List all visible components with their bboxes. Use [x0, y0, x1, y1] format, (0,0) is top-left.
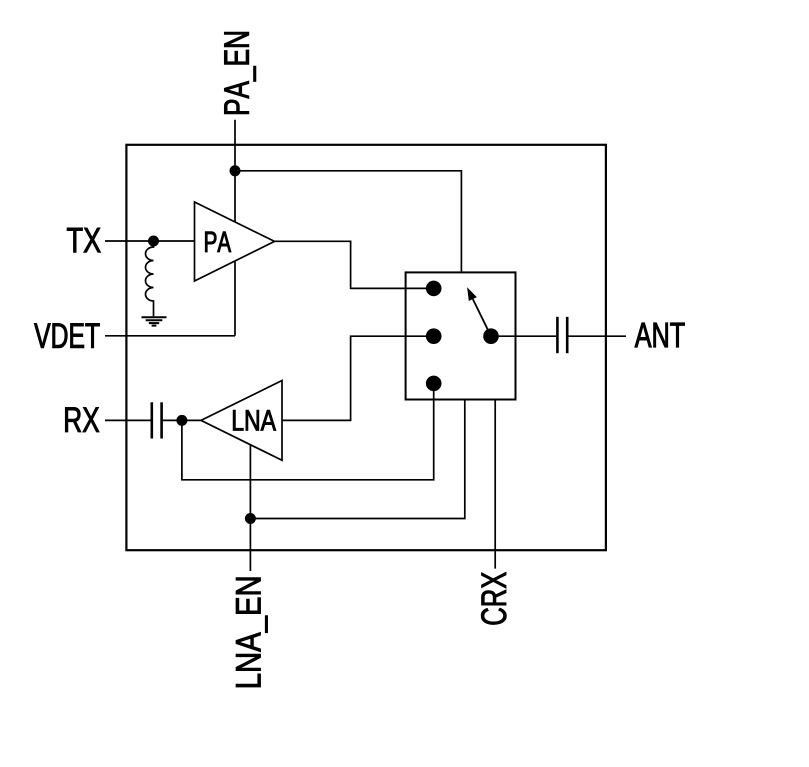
wire CRX [494, 400, 496, 569]
ground [142, 317, 167, 325]
label ANT [635, 323, 685, 347]
label PA [205, 232, 231, 252]
IC outer boundary box [126, 145, 606, 550]
switch arm with arrowhead [473, 299, 491, 336]
switch throw 2 dot [426, 328, 442, 344]
node LNA_EN junction dot [245, 513, 256, 524]
wire PA_EN junction to switch top [235, 171, 461, 272]
op-amp PA (power amplifier) [195, 202, 275, 281]
wire RX line [105, 419, 151, 421]
wire LNA_EN vertical [249, 430, 251, 571]
wire switch pole 3 down-left-up to RX node [182, 383, 434, 479]
op-amp LNA (low noise amplifier) [201, 381, 282, 461]
wire TX input [105, 240, 195, 242]
capacitor C2 (ANT) [557, 317, 567, 353]
label PA_EN [224, 32, 255, 114]
wire PA output to switch pole 1 [275, 241, 434, 288]
wire ANT cap to ANT label [568, 335, 626, 337]
switch common pole dot [483, 328, 499, 344]
label LNA [233, 410, 276, 430]
node PA_EN junction dot [230, 165, 241, 176]
wire VDET [105, 335, 235, 337]
node TX junction dot [148, 236, 159, 247]
label LNA_EN [236, 578, 267, 687]
wire switch common to ANT [491, 335, 556, 337]
switch throw 3 dot [426, 376, 442, 392]
label RX [65, 407, 99, 431]
wire LNA_EN junction to switch bottom [250, 400, 464, 519]
switch U1 box [406, 272, 516, 399]
inductor L1 [146, 241, 154, 316]
capacitor C1 (RX) [152, 402, 162, 438]
wire RX cap to LNA apex [162, 419, 201, 421]
switch throw 1 dot [426, 281, 442, 297]
node RX junction dot [176, 415, 187, 426]
label VDET [34, 323, 99, 347]
wire PA_EN vertical (through PA enable pin down to VDET row) [234, 120, 236, 336]
label CRX [481, 572, 506, 624]
wire LNA input to switch pole 2 [282, 336, 434, 420]
label TX [67, 228, 101, 252]
